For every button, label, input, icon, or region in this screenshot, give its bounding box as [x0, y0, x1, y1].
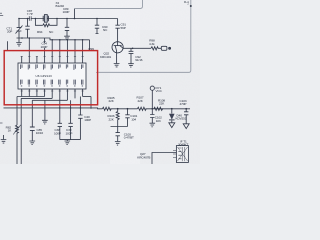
svg-text:VCC: VCC: [156, 89, 163, 93]
svg-text:10/16: 10/16: [36, 131, 44, 135]
svg-text:104: 104: [131, 117, 136, 121]
svg-text:3040KT: 3040KT: [178, 142, 188, 146]
svg-text:R94: R94: [37, 30, 43, 34]
svg-text:0.47/BT: 0.47/BT: [124, 136, 134, 140]
svg-text:100P: 100P: [54, 131, 61, 135]
svg-text:7.7P: 7.7P: [27, 12, 33, 16]
svg-text:-*: -*: [187, 3, 189, 7]
svg-text:91/16: 91/16: [135, 58, 143, 62]
svg-text:56P: 56P: [121, 26, 126, 30]
svg-text:100P: 100P: [66, 131, 73, 135]
svg-text:470P: 470P: [180, 102, 187, 106]
svg-text:KRC401: KRC401: [100, 55, 111, 59]
svg-text:U6 GP2143: U6 GP2143: [36, 74, 52, 78]
svg-text:100P: 100P: [84, 118, 91, 122]
svg-text:103: 103: [156, 119, 161, 123]
svg-text:KRC407B: KRC407B: [137, 155, 150, 159]
svg-text:100P: 100P: [41, 45, 48, 49]
svg-text:20P: 20P: [7, 30, 12, 34]
svg-text:100P: 100P: [63, 10, 70, 14]
svg-text:KDV251: KDV251: [176, 117, 187, 121]
svg-text:4.3k: 4.3k: [149, 42, 155, 46]
